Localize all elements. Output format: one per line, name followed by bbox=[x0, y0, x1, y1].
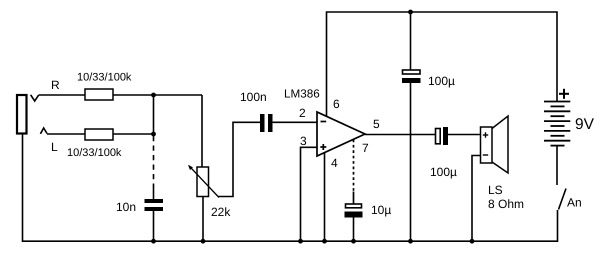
pin 4 bbox=[331, 156, 338, 170]
svg-text:4: 4 bbox=[331, 156, 338, 170]
value 10µ bbox=[371, 203, 391, 217]
junction dot pot ground bbox=[201, 239, 206, 244]
wire C3 top lead bbox=[410, 12, 412, 70]
jack contact L bbox=[40, 128, 47, 134]
wire C5 to speaker bbox=[448, 134, 480, 136]
junction dot pin3 ground bbox=[298, 239, 303, 244]
svg-text:An: An bbox=[567, 196, 582, 210]
wire R-junction down to potentiometer bbox=[201, 95, 203, 167]
speaker LS bbox=[481, 116, 509, 173]
value 10/33/100k (R1) bbox=[77, 72, 132, 84]
label L bbox=[51, 140, 58, 154]
value 10/33/100k (R2) bbox=[67, 147, 122, 159]
svg-text:3: 3 bbox=[300, 134, 307, 148]
label 8 Ohm bbox=[488, 197, 524, 211]
wire pin 6 + top supply rail + battery feed bbox=[327, 12, 558, 117]
wire wiper to C2 bbox=[218, 122, 260, 196]
label LM386 bbox=[284, 88, 320, 101]
wire pin 7 dotted to C4 bbox=[353, 140, 355, 205]
pin 2 bbox=[299, 106, 306, 120]
capacitor C4 10µ bbox=[345, 204, 363, 218]
svg-text:100µ: 100µ bbox=[430, 165, 457, 179]
wire pin 4 to ground bbox=[324, 153, 326, 242]
wire C3 bottom lead to ground bbox=[410, 83, 412, 242]
jack contact R bbox=[31, 95, 39, 101]
svg-text:5: 5 bbox=[373, 117, 380, 131]
label R bbox=[51, 78, 60, 92]
wire C1 to ground bbox=[153, 211, 155, 242]
svg-text:9V: 9V bbox=[575, 116, 595, 133]
wire mix junction vertical bbox=[153, 95, 155, 134]
wire battery minus to switch bbox=[556, 146, 558, 185]
wire C4 to ground bbox=[353, 218, 355, 243]
resistor R1 bbox=[85, 89, 113, 100]
battery BT1 9V bbox=[544, 102, 570, 146]
junction dot C3 top rail bbox=[408, 10, 413, 15]
value 100n bbox=[240, 90, 267, 104]
pin 3 bbox=[300, 134, 307, 148]
capacitor C3 100µ bbox=[402, 70, 421, 83]
capacitor C1 10n bbox=[145, 199, 164, 211]
capacitor C5 100µ bbox=[436, 127, 449, 145]
svg-text:10/33/100k: 10/33/100k bbox=[67, 147, 122, 159]
svg-text:10n: 10n bbox=[116, 200, 136, 214]
svg-text:2: 2 bbox=[299, 106, 306, 120]
pin 5 bbox=[373, 117, 380, 131]
svg-text:6: 6 bbox=[333, 97, 340, 111]
pin 6 bbox=[333, 97, 340, 111]
battery plus sign bbox=[559, 89, 569, 99]
svg-text:10µ: 10µ bbox=[371, 203, 391, 217]
capacitor C2 100n bbox=[260, 114, 273, 132]
pin 7 bbox=[362, 141, 369, 155]
svg-text:100µ: 100µ bbox=[428, 74, 455, 88]
junction dot speaker ground bbox=[470, 239, 475, 244]
wire C2 to pin 2 bbox=[273, 121, 318, 123]
label An bbox=[567, 196, 582, 210]
svg-text:8 Ohm: 8 Ohm bbox=[488, 197, 524, 211]
svg-text:22k: 22k bbox=[211, 205, 231, 219]
junction dot mix R bbox=[151, 93, 156, 98]
value 100µ (C5) bbox=[430, 165, 457, 179]
junction dot mix L bbox=[151, 132, 156, 137]
svg-text:LS: LS bbox=[488, 183, 503, 197]
junction dot C4 ground bbox=[351, 239, 356, 244]
wire R input line bbox=[39, 94, 202, 96]
junction dot C1 ground bbox=[151, 239, 156, 244]
svg-text:100n: 100n bbox=[240, 90, 267, 104]
wire pin 3 to ground bbox=[301, 147, 318, 242]
svg-text:LM386: LM386 bbox=[284, 88, 320, 101]
potentiometer P1 22k bbox=[188, 165, 219, 198]
value 22k bbox=[211, 205, 231, 219]
svg-text:R: R bbox=[51, 78, 60, 92]
value 100µ (C3) bbox=[428, 74, 455, 88]
value 10n bbox=[116, 200, 136, 214]
switch S1 bbox=[559, 189, 567, 210]
label LS bbox=[488, 183, 503, 197]
wire speaker minus to ground bbox=[472, 156, 480, 243]
svg-text:10/33/100k: 10/33/100k bbox=[77, 72, 132, 84]
resistor R2 bbox=[85, 129, 113, 140]
wire L input line bbox=[47, 133, 154, 135]
wire pin 5 output bbox=[365, 134, 435, 136]
wire potentiometer bottom to ground bbox=[202, 197, 204, 243]
op-amp U1 LM386 bbox=[317, 112, 365, 156]
input jack J1 bbox=[17, 95, 27, 134]
wire jack sleeve + ground rail + switch stub bbox=[23, 134, 558, 241]
svg-text:L: L bbox=[51, 140, 58, 154]
junction dot pin4 ground bbox=[322, 239, 327, 244]
label 9V bbox=[575, 116, 595, 133]
wire dashed to C1 bbox=[153, 136, 155, 199]
svg-text:7: 7 bbox=[362, 141, 369, 155]
junction dot C3 ground bbox=[408, 239, 413, 244]
